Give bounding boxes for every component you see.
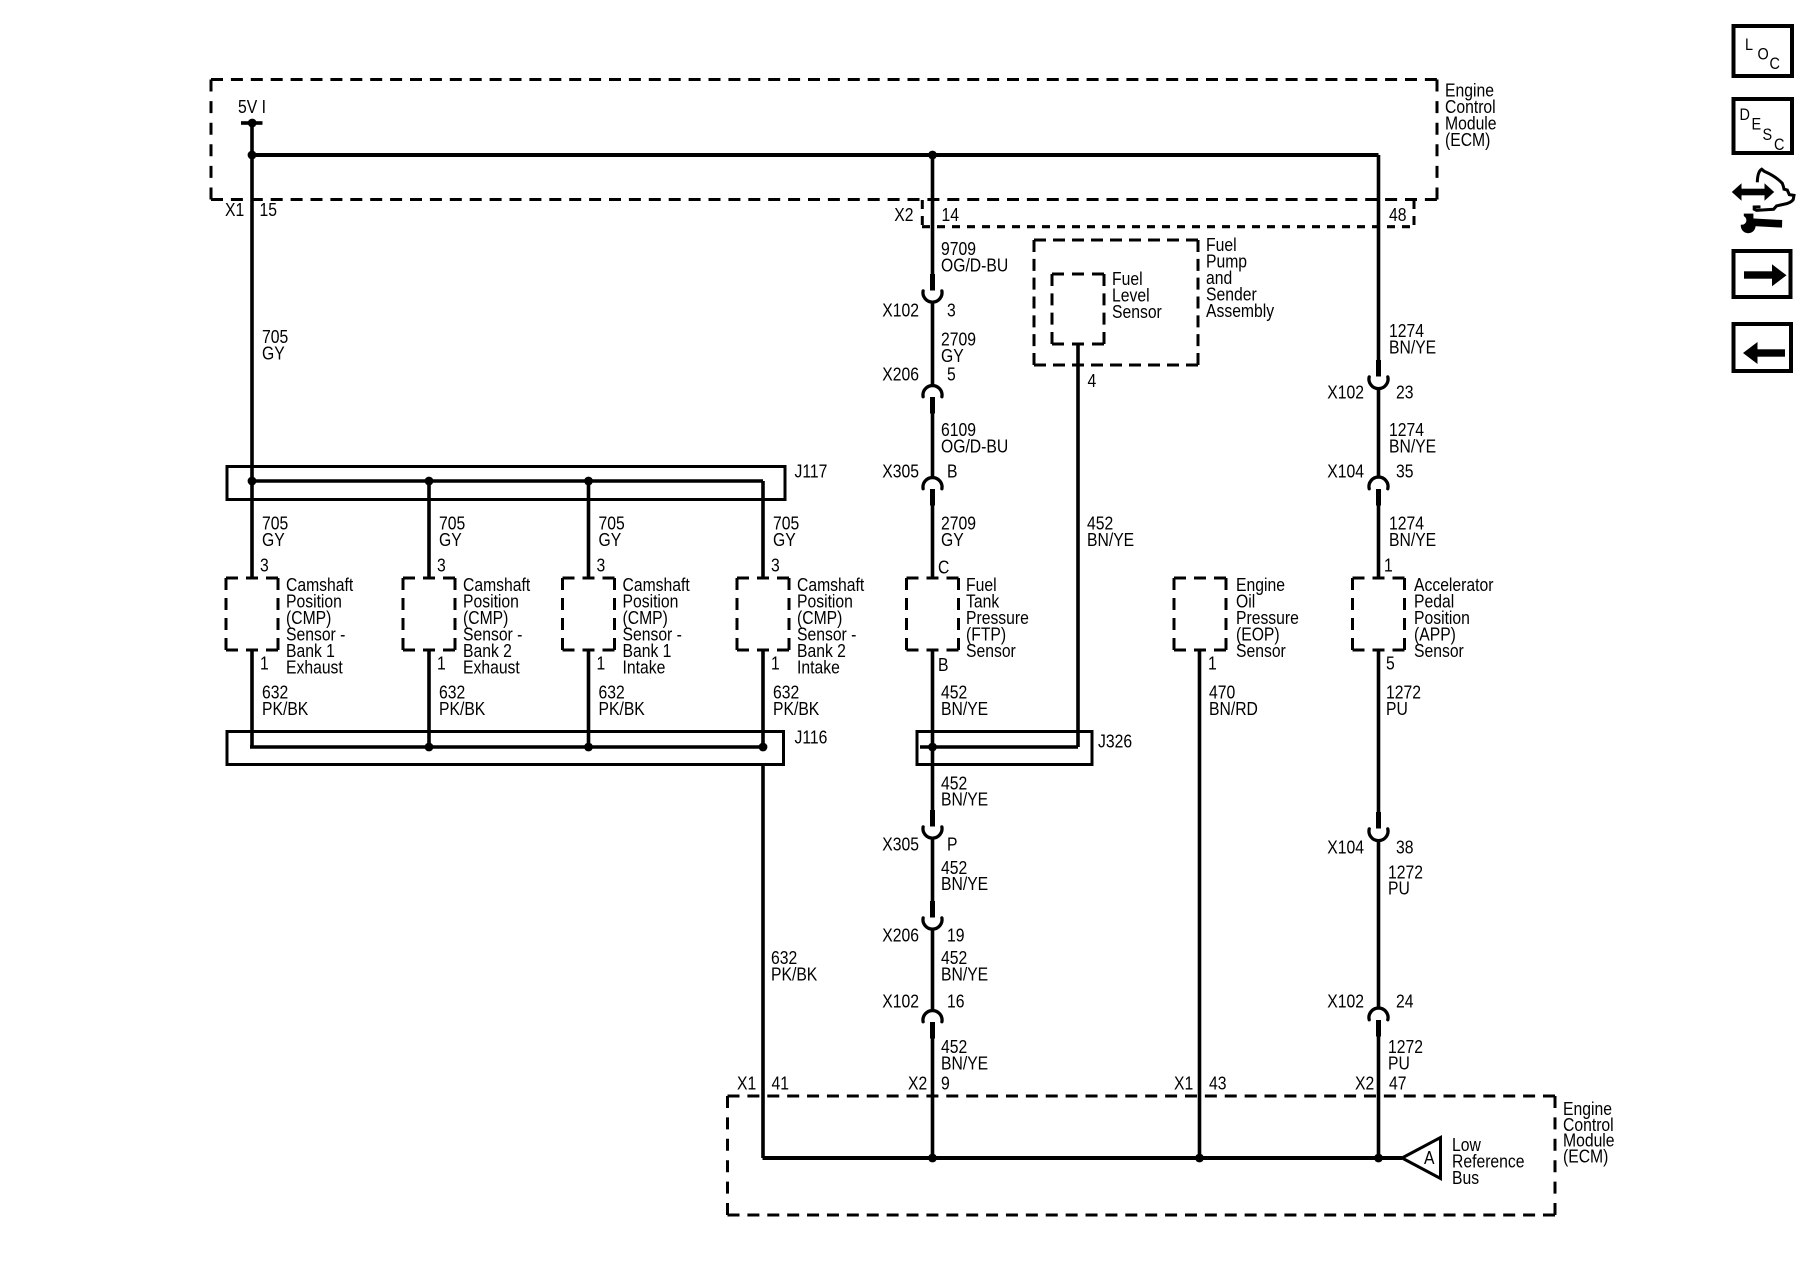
icon back arrow box (1734, 324, 1792, 371)
splice pack J117 (227, 467, 785, 500)
icon wrench (1735, 212, 1782, 233)
svg-text:5V I: 5V I (238, 96, 266, 118)
svg-text:X1: X1 (1174, 1072, 1193, 1094)
low reference bus terminal A (1402, 1138, 1441, 1179)
label CMP sensor bank1 intake (623, 574, 690, 678)
svg-text:1: 1 (260, 652, 269, 674)
svg-text:C: C (938, 556, 949, 578)
label CMP sensor bank1 exhaust (286, 574, 353, 678)
engine control module ECM bottom box (728, 1096, 1556, 1215)
svg-text:P: P (947, 833, 957, 855)
CMP sensor bank2 intake box (737, 578, 789, 650)
wire 705 GY to CMP sensor bank2 intake (761, 481, 765, 578)
inline connector X102 pin 16 (923, 1011, 942, 1039)
splice pack J326 (917, 732, 1092, 765)
wire 2709 GY upper (931, 304, 935, 385)
label FTP sensor (966, 574, 1029, 662)
X2 divider tick (921, 200, 924, 226)
svg-text:X206: X206 (882, 924, 919, 946)
svg-text:3: 3 (437, 554, 446, 576)
svg-text:GY: GY (262, 342, 285, 364)
svg-text:16: 16 (947, 990, 964, 1012)
svg-text:47: 47 (1389, 1072, 1406, 1094)
svg-text:PK/BK: PK/BK (599, 698, 646, 720)
5V terminal tick (241, 119, 263, 128)
svg-text:14: 14 (942, 204, 960, 226)
junction J117-1 (248, 477, 257, 486)
svg-text:Sensor: Sensor (966, 640, 1016, 662)
icon DESC box (1734, 99, 1793, 154)
svg-text:X305: X305 (882, 833, 919, 855)
svg-text:X1: X1 (737, 1072, 756, 1094)
icon LOC box (1734, 26, 1793, 76)
wire 705 GY to CMP sensor bank1 intake (587, 481, 591, 578)
svg-text:PK/BK: PK/BK (439, 698, 486, 720)
wire 1274 BN/YE mid (1377, 390, 1381, 477)
wire 632 PK/BK from CMP sensor bank2 intake (761, 650, 765, 747)
fuel level sensor box (1052, 274, 1104, 344)
svg-text:5: 5 (947, 363, 956, 385)
svg-text:BN/YE: BN/YE (1389, 435, 1436, 457)
engine control module ECM top box (211, 80, 1437, 200)
svg-text:BN/YE: BN/YE (1087, 529, 1134, 551)
wire 632 PK/BK low reference to ECM (761, 764, 765, 1158)
svg-text:S: S (1763, 126, 1773, 144)
svg-text:C: C (1770, 55, 1780, 73)
svg-text:GY: GY (599, 529, 622, 551)
svg-text:PK/BK: PK/BK (773, 698, 820, 720)
wire 705 GY to CMP sensor bank2 exhaust (427, 481, 431, 578)
svg-text:(ECM): (ECM) (1445, 129, 1490, 151)
wire 1272 PU upper (1377, 650, 1381, 812)
inline connector X305 pin P (923, 810, 942, 838)
wire 632 PK/BK from CMP sensor bank1 exhaust (250, 650, 254, 747)
svg-text:Sensor: Sensor (1414, 640, 1464, 662)
svg-text:E: E (1752, 115, 1762, 133)
accelerator pedal position APP sensor box (1353, 578, 1405, 650)
wire 452 BN/YE 3 (931, 840, 935, 902)
label ECM top (1445, 79, 1497, 150)
svg-text:BN/YE: BN/YE (1389, 336, 1436, 358)
inline connector X206 pin 19 (923, 901, 942, 929)
svg-text:Sensor: Sensor (1112, 301, 1162, 323)
svg-text:X2: X2 (908, 1072, 927, 1094)
svg-text:Sensor: Sensor (1236, 640, 1286, 662)
junction J116-4 (759, 743, 768, 752)
svg-text:1: 1 (597, 652, 606, 674)
svg-text:L: L (1745, 36, 1753, 54)
inline connector X104 pin 35 (1369, 477, 1388, 505)
svg-text:OG/D-BU: OG/D-BU (941, 435, 1008, 457)
wire 452 BN/YE from FTP (931, 650, 935, 810)
svg-text:1: 1 (1208, 652, 1217, 674)
junction J116-2 (425, 743, 434, 752)
label APP sensor (1414, 574, 1494, 662)
svg-text:9: 9 (941, 1072, 950, 1094)
wire 452 BN/YE from fuel level sensor (1076, 344, 1080, 747)
svg-text:X1: X1 (225, 199, 244, 221)
wire 6109 OG/D-BU (931, 414, 935, 477)
svg-text:Exhaust: Exhaust (463, 656, 520, 678)
wire low reference bus (763, 1156, 1403, 1160)
svg-text:3: 3 (947, 299, 956, 321)
svg-text:24: 24 (1396, 990, 1414, 1012)
inline connector X104 pin 38 (1369, 812, 1388, 841)
label ECM bottom (1563, 1098, 1615, 1167)
svg-text:X102: X102 (882, 299, 919, 321)
svg-text:OG/D-BU: OG/D-BU (941, 254, 1008, 276)
svg-text:(ECM): (ECM) (1563, 1145, 1608, 1167)
label CMP sensor bank2 intake (797, 574, 864, 678)
label fuel level sensor (1112, 268, 1162, 323)
harness dotted line (922, 225, 1415, 228)
svg-text:X102: X102 (882, 990, 919, 1012)
junction J117-2 (425, 477, 434, 486)
junction J326 (928, 743, 937, 752)
svg-text:X2: X2 (1355, 1072, 1374, 1094)
svg-text:X104: X104 (1327, 460, 1364, 482)
svg-text:C: C (1774, 136, 1784, 154)
wire 1272 PU mid (1377, 842, 1381, 1008)
svg-text:48: 48 (1389, 204, 1406, 226)
fuel pump and sender assembly box (1034, 240, 1198, 365)
svg-text:GY: GY (262, 529, 285, 551)
engine oil pressure EOP sensor box (1174, 578, 1226, 650)
svg-text:41: 41 (772, 1072, 789, 1094)
svg-text:BN/YE: BN/YE (941, 788, 988, 810)
wire 452 BN/YE 4 (931, 931, 935, 1010)
inline connector X102 pin 23 (1369, 360, 1388, 389)
svg-text:B: B (938, 654, 948, 676)
svg-text:J116: J116 (795, 726, 828, 748)
svg-text:PU: PU (1388, 877, 1410, 899)
svg-text:BN/YE: BN/YE (941, 1052, 988, 1074)
svg-text:5: 5 (1386, 652, 1395, 674)
wire 705 GY from 5V to CMP bank1 exhaust (250, 121, 254, 578)
svg-text:Intake: Intake (623, 656, 666, 678)
svg-text:1: 1 (1384, 554, 1393, 576)
wire 5V reference rail (250, 153, 1379, 157)
fuel tank pressure FTP sensor box (907, 578, 959, 650)
wire 1272 PU lower (1377, 1037, 1381, 1159)
svg-text:O: O (1758, 45, 1769, 63)
svg-text:PK/BK: PK/BK (262, 698, 309, 720)
svg-text:3: 3 (771, 554, 780, 576)
svg-text:23: 23 (1396, 381, 1413, 403)
svg-text:3: 3 (260, 554, 269, 576)
svg-text:X104: X104 (1327, 836, 1364, 858)
inline connector X102 pin 24 (1369, 1008, 1388, 1036)
svg-text:35: 35 (1396, 460, 1413, 482)
wire 9709 OG/D-BU (931, 155, 935, 274)
svg-text:15: 15 (260, 199, 277, 221)
svg-text:GY: GY (439, 529, 462, 551)
wire 632 PK/BK from CMP sensor bank1 intake (587, 650, 591, 747)
svg-text:BN/YE: BN/YE (941, 873, 988, 895)
svg-text:Exhaust: Exhaust (286, 656, 343, 678)
CMP sensor bank1 intake box (563, 578, 615, 650)
svg-text:BN/YE: BN/YE (941, 698, 988, 720)
icon forward arrow box (1734, 251, 1791, 297)
svg-text:Bus: Bus (1452, 1167, 1479, 1189)
icon schematic navigation (double arrow) (1732, 169, 1794, 210)
svg-text:BN/RD: BN/RD (1209, 698, 1258, 720)
inline connector X305 pin B (923, 478, 942, 506)
svg-text:GY: GY (941, 529, 964, 551)
svg-text:1: 1 (437, 652, 446, 674)
junction 5V rail middle (928, 151, 937, 160)
svg-text:BN/YE: BN/YE (1389, 529, 1436, 551)
svg-text:3: 3 (597, 554, 606, 576)
svg-text:PK/BK: PK/BK (771, 963, 818, 985)
svg-text:Assembly: Assembly (1206, 300, 1274, 322)
junction J117-3 (584, 477, 593, 486)
svg-text:J326: J326 (1098, 730, 1132, 752)
svg-text:43: 43 (1209, 1072, 1226, 1094)
svg-text:38: 38 (1396, 836, 1413, 858)
junction bus FTP (928, 1154, 937, 1163)
CMP sensor bank2 exhaust box (403, 578, 455, 650)
label fuel pump and sender assembly (1206, 234, 1274, 322)
wire 2709 GY lower (931, 506, 935, 579)
svg-text:PU: PU (1386, 698, 1408, 720)
svg-text:GY: GY (773, 529, 796, 551)
wire 470 BN/RD from EOP (1198, 650, 1202, 1158)
wire 1274 BN/YE upper (1377, 155, 1381, 360)
svg-text:Intake: Intake (797, 656, 840, 678)
wire 632 PK/BK from CMP sensor bank2 exhaust (427, 650, 431, 747)
svg-text:X206: X206 (882, 363, 919, 385)
svg-text:D: D (1740, 106, 1750, 124)
svg-text:19: 19 (947, 924, 964, 946)
junction bus EOP (1195, 1154, 1204, 1163)
svg-text:X102: X102 (1327, 990, 1364, 1012)
label CMP sensor bank2 exhaust (463, 574, 530, 678)
CMP sensor bank1 exhaust box (226, 578, 278, 650)
pin48 divider tick (1413, 200, 1416, 226)
inline connector X206 pin 5 (923, 386, 942, 414)
svg-text:J117: J117 (795, 460, 828, 482)
label low reference bus (1452, 1134, 1525, 1189)
label EOP sensor (1236, 574, 1299, 662)
svg-text:X305: X305 (882, 460, 919, 482)
svg-text:X2: X2 (894, 204, 913, 226)
svg-text:A: A (1424, 1147, 1435, 1169)
junction 5V rail left (248, 151, 257, 160)
junction bus APP (1374, 1154, 1383, 1163)
svg-text:4: 4 (1088, 370, 1097, 392)
svg-text:PU: PU (1388, 1052, 1410, 1074)
svg-text:1: 1 (771, 652, 780, 674)
svg-text:B: B (947, 460, 957, 482)
junction J116-3 (584, 743, 593, 752)
splice pack J116 (227, 732, 784, 765)
svg-text:X102: X102 (1327, 381, 1364, 403)
svg-text:BN/YE: BN/YE (941, 963, 988, 985)
wire 452 BN/YE 5 (931, 1039, 935, 1159)
inline connector X102 pin 3 (923, 274, 942, 302)
wire 1274 BN/YE lower (1377, 506, 1381, 579)
